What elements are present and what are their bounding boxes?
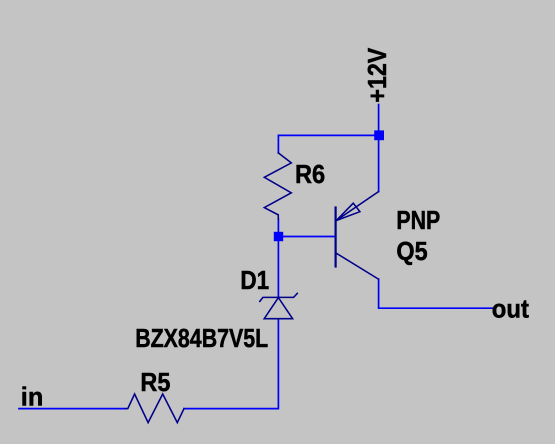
- svg-text:Q5: Q5: [396, 236, 427, 266]
- svg-text:R6: R6: [295, 159, 325, 189]
- svg-text:R5: R5: [140, 367, 170, 397]
- svg-text:+12V: +12V: [362, 47, 392, 102]
- svg-text:in: in: [21, 381, 44, 411]
- svg-text:D1: D1: [240, 265, 269, 295]
- svg-text:BZX84B7V5L: BZX84B7V5L: [135, 323, 268, 353]
- svg-text:PNP: PNP: [396, 205, 440, 235]
- svg-text:out: out: [492, 294, 529, 324]
